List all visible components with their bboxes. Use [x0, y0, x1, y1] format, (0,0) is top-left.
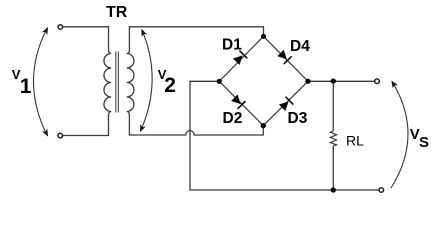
node RL bottom junction — [331, 187, 336, 192]
wire primary bottom lead — [63, 116, 109, 136]
terminal top-left primary input — [58, 25, 63, 30]
arc V1 with arrows — [34, 29, 48, 136]
bridge edge bottom-right — [263, 81, 308, 125]
node RL top junction — [331, 78, 336, 83]
svg-text:S: S — [419, 134, 429, 151]
svg-text:D4: D4 — [290, 38, 310, 55]
diode D1 — [232, 51, 247, 66]
svg-text:D2: D2 — [223, 110, 243, 127]
svg-text:D1: D1 — [222, 36, 242, 53]
node bridge top vertex — [261, 34, 266, 39]
terminal bottom-left primary input — [58, 133, 63, 138]
wire RL top lead — [332, 81, 334, 131]
wire secondary top to bridge top — [129, 27, 263, 50]
diode D4 — [277, 49, 292, 64]
svg-text:D3: D3 — [288, 110, 308, 127]
wire right vertex to output terminal — [308, 80, 375, 82]
wire secondary bottom with hop over vertical — [129, 116, 263, 136]
svg-text:2: 2 — [164, 74, 176, 97]
node bridge left vertex — [217, 79, 222, 84]
bridge edge left-top — [219, 36, 263, 81]
node bridge right vertex — [305, 79, 310, 84]
terminal top-right output — [375, 79, 380, 84]
node bridge bottom vertex — [261, 123, 266, 128]
diode D3 — [278, 97, 293, 112]
wire primary top lead — [63, 27, 109, 50]
svg-text:RL: RL — [346, 133, 364, 149]
resistor RL — [330, 131, 336, 146]
transformer TR primary winding — [104, 50, 111, 116]
wire left vertex to negative rail — [190, 81, 379, 190]
svg-text:1: 1 — [20, 75, 32, 98]
transformer TR core — [116, 52, 119, 113]
bridge edge left-bottom — [219, 81, 263, 125]
svg-text:TR: TR — [106, 4, 128, 21]
diode D2 — [230, 94, 245, 109]
transformer TR secondary winding — [127, 50, 134, 116]
terminal bottom-right output — [379, 188, 384, 193]
arc VS with arrow — [391, 82, 408, 189]
bridge edge top-right — [264, 36, 309, 81]
arc V2 with arrows — [141, 30, 153, 131]
wire RL bottom lead — [332, 146, 334, 190]
